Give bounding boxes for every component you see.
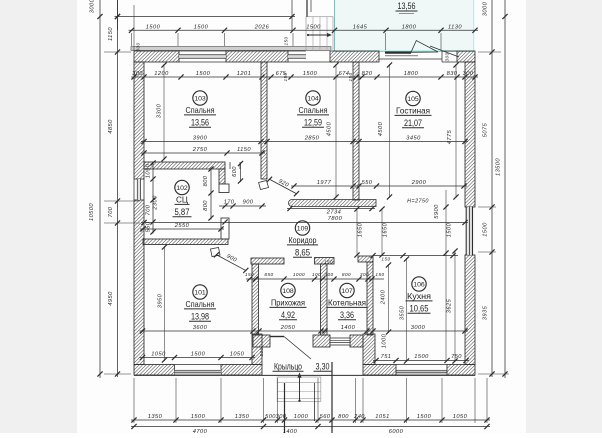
top wall opening lines xyxy=(306,51,457,62)
boiler room right wall xyxy=(358,256,373,335)
svg-text:Коридор: Коридор xyxy=(289,236,317,245)
corridor height note xyxy=(407,199,429,205)
top exterior wall piers xyxy=(134,51,475,62)
svg-text:300: 300 xyxy=(259,347,264,356)
svg-text:1150: 1150 xyxy=(237,147,251,153)
top wall window W2 xyxy=(288,51,306,62)
dim chain T8 xyxy=(291,180,467,188)
svg-text:1500: 1500 xyxy=(146,25,161,31)
svg-text:1051: 1051 xyxy=(375,414,389,420)
svg-text:150: 150 xyxy=(348,72,353,81)
svg-text:3900: 3900 xyxy=(193,136,208,142)
porch left jamb xyxy=(252,334,262,365)
svg-text:107: 107 xyxy=(341,288,353,295)
porch right jamb xyxy=(363,334,375,365)
svg-text:8,65: 8,65 xyxy=(295,247,310,257)
right exterior wall xyxy=(465,62,475,365)
right window glazing xyxy=(468,207,473,255)
svg-text:4700: 4700 xyxy=(193,429,208,433)
room 109 label xyxy=(287,221,318,258)
svg-text:10,65: 10,65 xyxy=(410,303,429,313)
svg-text:700: 700 xyxy=(146,204,152,215)
porch steps bottom xyxy=(277,372,321,402)
svg-text:150: 150 xyxy=(283,72,288,81)
svg-text:1350: 1350 xyxy=(235,414,250,420)
svg-text:150: 150 xyxy=(245,272,254,277)
svg-text:1201: 1201 xyxy=(237,71,251,77)
svg-text:3550: 3550 xyxy=(400,305,406,320)
svg-text:21,07: 21,07 xyxy=(404,118,422,128)
wall between rooms 101 and 108 xyxy=(251,258,284,335)
dim chain T5 xyxy=(141,147,265,155)
terrace door leaf xyxy=(385,41,438,56)
svg-text:300: 300 xyxy=(360,272,369,277)
svg-text:550: 550 xyxy=(146,221,152,232)
room 103 label xyxy=(184,91,216,128)
svg-text:3000: 3000 xyxy=(90,0,96,13)
svg-text:2850: 2850 xyxy=(304,136,320,142)
room 105 label xyxy=(395,91,432,128)
porch boiler window (striped) xyxy=(330,338,350,345)
svg-text:300: 300 xyxy=(132,71,143,77)
door swing dim 920 xyxy=(267,177,299,197)
svg-text:150: 150 xyxy=(284,36,289,45)
wall between rooms 103 and 104 xyxy=(261,62,267,179)
dim chain T11 bottom room widths xyxy=(140,325,469,333)
svg-text:2300: 2300 xyxy=(153,195,159,211)
svg-text:12,59: 12,59 xyxy=(304,117,322,127)
svg-text:108: 108 xyxy=(282,288,294,295)
dim chain T3 interior top row xyxy=(131,71,478,80)
svg-text:1130: 1130 xyxy=(448,25,462,31)
svg-text:Гостиная: Гостиная xyxy=(396,107,430,116)
svg-text:150: 150 xyxy=(375,272,384,277)
bottom window glazing xyxy=(175,370,222,375)
svg-text:101: 101 xyxy=(194,289,206,296)
svg-text:2550: 2550 xyxy=(174,223,190,229)
svg-text:800: 800 xyxy=(338,414,349,420)
dim chain B1 xyxy=(131,414,490,422)
interior room height dim lines xyxy=(161,62,458,363)
bottom extension lines xyxy=(134,362,487,433)
svg-text:850: 850 xyxy=(264,272,273,277)
svg-text:Крыльцо: Крыльцо xyxy=(274,362,302,372)
svg-text:Спальня: Спальня xyxy=(299,106,328,115)
bathroom 102 right wall lower / jamb xyxy=(221,218,229,239)
corridor partition wall xyxy=(289,200,377,207)
svg-text:1500: 1500 xyxy=(196,71,211,77)
svg-text:300: 300 xyxy=(276,414,287,420)
svg-text:13,98: 13,98 xyxy=(191,311,209,321)
dim mini chain left wall segs xyxy=(146,160,156,234)
building base line xyxy=(134,374,475,376)
svg-text:170: 170 xyxy=(224,200,235,206)
svg-text:1500: 1500 xyxy=(417,414,432,420)
svg-text:100: 100 xyxy=(312,272,321,277)
bottom wall window left xyxy=(175,365,222,376)
svg-text:103: 103 xyxy=(194,95,206,102)
svg-text:1650: 1650 xyxy=(383,222,389,237)
terrace highlight region xyxy=(335,0,475,51)
svg-text:900: 900 xyxy=(243,200,254,206)
svg-text:1500: 1500 xyxy=(447,222,453,237)
svg-text:1200: 1200 xyxy=(154,71,169,77)
svg-text:105: 105 xyxy=(407,96,419,103)
right extension lines xyxy=(478,52,509,374)
svg-text:13,56: 13,56 xyxy=(191,117,209,127)
svg-text:1500: 1500 xyxy=(191,414,206,420)
svg-text:1000: 1000 xyxy=(382,333,388,348)
svg-text:Н=2750: Н=2750 xyxy=(407,199,429,205)
right gray margin strip xyxy=(526,0,602,433)
terrace area label 13.56 xyxy=(396,1,418,14)
svg-text:106: 106 xyxy=(413,281,425,288)
svg-text:1500: 1500 xyxy=(306,25,321,31)
svg-text:3935: 3935 xyxy=(483,305,489,320)
svg-text:3,36: 3,36 xyxy=(340,310,354,320)
dim chain T7b 7800 xyxy=(141,216,468,225)
window sill strip above top wall xyxy=(131,47,331,51)
dim chain T7 2734 xyxy=(287,206,375,215)
top wall window W1 xyxy=(179,51,226,62)
svg-text:751: 751 xyxy=(381,354,392,360)
svg-text:1400: 1400 xyxy=(283,429,298,433)
svg-text:3000: 3000 xyxy=(483,1,489,16)
svg-text:5900: 5900 xyxy=(434,204,440,219)
interior vertical dims xyxy=(136,36,454,356)
svg-text:3000: 3000 xyxy=(411,325,426,331)
room 102 label xyxy=(173,180,192,217)
small dim 150 labels row T3 xyxy=(283,72,353,81)
dim chain L1 outer xyxy=(89,0,103,378)
top wall window W1 glazing xyxy=(179,55,226,59)
interior vertical dim lines xyxy=(443,190,452,362)
bottom exterior wall right section xyxy=(363,365,475,376)
dim mini chain bathroom right xyxy=(153,166,214,220)
bottom wall window right xyxy=(396,365,447,376)
svg-text:1500: 1500 xyxy=(483,222,489,237)
svg-text:560: 560 xyxy=(320,414,331,420)
room 107 label xyxy=(327,283,368,320)
svg-text:300: 300 xyxy=(463,71,474,77)
svg-text:2026: 2026 xyxy=(254,25,270,31)
wall between rooms 104 and 105 xyxy=(353,62,359,200)
svg-text:4950: 4950 xyxy=(108,291,114,306)
svg-text:1800: 1800 xyxy=(402,25,417,31)
roof diagonal at terrace corner xyxy=(430,46,459,57)
svg-text:300: 300 xyxy=(136,42,141,51)
porch door swing xyxy=(270,337,311,360)
bathroom 102 bottom wall xyxy=(143,239,228,245)
porch set-back wall xyxy=(253,335,363,347)
svg-text:1500: 1500 xyxy=(303,71,318,77)
svg-text:2750: 2750 xyxy=(192,147,208,153)
svg-text:10500: 10500 xyxy=(89,203,95,221)
svg-text:300: 300 xyxy=(445,52,450,61)
svg-text:240: 240 xyxy=(353,414,365,420)
room 104 label xyxy=(297,91,329,128)
room 101 label xyxy=(184,285,216,322)
dim chain T2 top main xyxy=(129,25,479,33)
svg-text:1500: 1500 xyxy=(414,354,429,360)
svg-text:4500: 4500 xyxy=(378,121,384,136)
svg-text:3950: 3950 xyxy=(158,293,164,308)
svg-text:1050: 1050 xyxy=(230,352,245,358)
svg-text:800: 800 xyxy=(203,175,209,186)
svg-text:2400: 2400 xyxy=(381,289,387,305)
left extension lines xyxy=(104,52,140,374)
svg-text:13500: 13500 xyxy=(496,158,502,176)
svg-text:3625: 3625 xyxy=(447,298,453,313)
svg-text:150: 150 xyxy=(381,257,390,262)
svg-text:Спальня: Спальня xyxy=(186,300,215,309)
svg-text:1977: 1977 xyxy=(317,180,332,186)
dim chain B2 xyxy=(131,424,490,435)
svg-text:2050: 2050 xyxy=(280,325,296,331)
svg-text:1150: 1150 xyxy=(108,27,114,41)
svg-text:3450: 3450 xyxy=(406,136,421,142)
svg-text:СЦ: СЦ xyxy=(176,196,188,205)
svg-text:4775: 4775 xyxy=(447,129,453,144)
svg-text:13,56: 13,56 xyxy=(398,1,416,11)
svg-text:1000: 1000 xyxy=(293,272,305,277)
partition stub room 108 xyxy=(0,0,1,1)
svg-text:800: 800 xyxy=(203,200,209,211)
svg-text:1650: 1650 xyxy=(358,222,364,237)
dim chain R1 xyxy=(483,0,495,377)
svg-text:1500: 1500 xyxy=(191,352,206,358)
svg-text:Прихожая: Прихожая xyxy=(271,299,305,308)
dim chain T12b right window xyxy=(373,354,469,363)
door leaf room 101 xyxy=(211,248,221,257)
svg-text:1050: 1050 xyxy=(151,352,166,358)
svg-text:1500: 1500 xyxy=(194,25,209,31)
dim chain T6 bathroom width xyxy=(140,223,224,231)
boiler room left wall xyxy=(315,258,335,336)
left gray margin strip xyxy=(0,0,77,433)
bathroom door mark 600 xyxy=(230,161,243,184)
svg-text:1400: 1400 xyxy=(341,325,356,331)
svg-text:Кухня: Кухня xyxy=(407,292,431,301)
dim chain T12 left window xyxy=(140,352,256,360)
svg-text:4850: 4850 xyxy=(108,119,114,134)
right wall window xyxy=(466,207,472,255)
svg-text:550: 550 xyxy=(362,180,373,186)
svg-text:1000: 1000 xyxy=(294,414,309,420)
upper crop risers xyxy=(307,0,311,17)
svg-text:109: 109 xyxy=(297,225,309,232)
svg-text:Спальня: Спальня xyxy=(186,106,215,115)
svg-text:2734: 2734 xyxy=(326,209,341,215)
dim chain R2 outer xyxy=(496,0,508,378)
svg-text:800: 800 xyxy=(342,272,351,277)
svg-text:6000: 6000 xyxy=(389,429,404,433)
dim chain T9 door 900 xyxy=(219,200,266,209)
door leaf room 103 xyxy=(259,181,269,190)
svg-text:3600: 3600 xyxy=(193,325,208,331)
svg-text:700: 700 xyxy=(108,206,114,217)
bottom exterior wall left section xyxy=(134,365,262,376)
left exterior wall xyxy=(134,62,144,365)
door swing dim 900 room 101 xyxy=(214,252,249,273)
svg-text:1350: 1350 xyxy=(148,414,163,420)
dim chain kitchen top xyxy=(370,253,458,262)
terrace steps top xyxy=(306,17,333,51)
svg-text:300: 300 xyxy=(324,272,333,277)
svg-text:1645: 1645 xyxy=(353,25,368,31)
svg-text:4500: 4500 xyxy=(327,121,333,136)
room 108 label xyxy=(270,283,307,320)
svg-text:1050: 1050 xyxy=(453,414,468,420)
porch label xyxy=(273,362,332,372)
bathroom 102 top wall xyxy=(144,162,225,169)
svg-text:1050: 1050 xyxy=(146,163,152,178)
svg-text:104: 104 xyxy=(307,95,319,102)
dim chain L2 xyxy=(108,0,120,377)
dim chain T4 room widths xyxy=(141,136,468,144)
bathroom 102 right wall upper xyxy=(219,169,229,193)
svg-text:820: 820 xyxy=(362,71,373,77)
room 106 label xyxy=(406,277,433,314)
svg-text:150: 150 xyxy=(324,260,333,265)
svg-text:600: 600 xyxy=(232,166,238,177)
svg-text:3,30: 3,30 xyxy=(316,362,330,372)
left window glazing xyxy=(137,179,140,200)
svg-text:Котельная: Котельная xyxy=(328,299,366,308)
svg-text:7800: 7800 xyxy=(328,216,343,222)
svg-text:2900: 2900 xyxy=(411,180,427,186)
svg-text:3300: 3300 xyxy=(157,103,163,118)
dim chain T10 partition row xyxy=(245,260,385,282)
svg-text:102: 102 xyxy=(176,185,188,192)
svg-text:4,92: 4,92 xyxy=(281,310,295,320)
dim chain T1 top outer xyxy=(115,0,296,51)
left wall window xyxy=(134,179,144,200)
svg-text:1800: 1800 xyxy=(404,71,419,77)
svg-text:5,87: 5,87 xyxy=(175,207,190,217)
svg-text:5075: 5075 xyxy=(483,122,489,137)
